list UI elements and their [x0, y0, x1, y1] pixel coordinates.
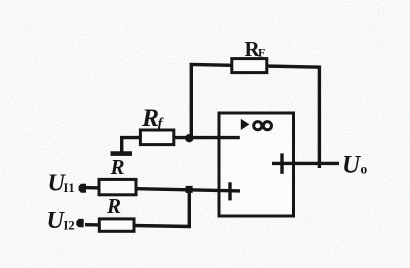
node A: junction of Rf, feedback and inverting input — [185, 134, 193, 142]
wire: input 1 horizontal (UI1 to op-amp plus) — [84, 188, 240, 191]
resistor R (input 2) — [99, 219, 134, 231]
wire: ground stub vertical — [120, 137, 123, 153]
input terminal arrow UI1 — [79, 184, 86, 193]
resistor R (input 1) — [99, 179, 136, 194]
svg-text:R: R — [141, 103, 159, 132]
svg-text:R: R — [110, 155, 125, 179]
node B: junction of input resistors at plus input — [186, 186, 193, 193]
input terminal arrow UI2 — [76, 219, 83, 227]
resistor RF — [232, 59, 267, 73]
wire: feedback left vertical — [190, 63, 193, 139]
svg-text:U: U — [342, 152, 362, 179]
op-amp U1 body — [219, 113, 294, 216]
svg-text:R: R — [106, 194, 121, 218]
ground — [111, 151, 133, 156]
op-amp output plus sign — [280, 153, 283, 173]
wire: feedback top horizontal — [190, 64, 321, 67]
wire: summing vertical (input 2 up to node A) — [188, 188, 191, 227]
wire: output horizontal — [272, 162, 339, 165]
wire: feedback right vertical — [318, 66, 321, 168]
op-amp infinity symbol — [254, 122, 262, 130]
svg-text:o: o — [361, 162, 368, 177]
op-amp infinity-gain triangle — [241, 119, 250, 130]
svg-text:I1: I1 — [64, 181, 75, 195]
wire: inverting input horizontal (ground to op-amp minus stub) — [120, 136, 240, 139]
svg-text:I2: I2 — [64, 219, 75, 233]
svg-text:F: F — [258, 46, 265, 60]
resistor Rf — [140, 130, 173, 145]
wire: input 2 horizontal — [85, 225, 191, 227]
op-amp plus input sign — [228, 182, 231, 200]
